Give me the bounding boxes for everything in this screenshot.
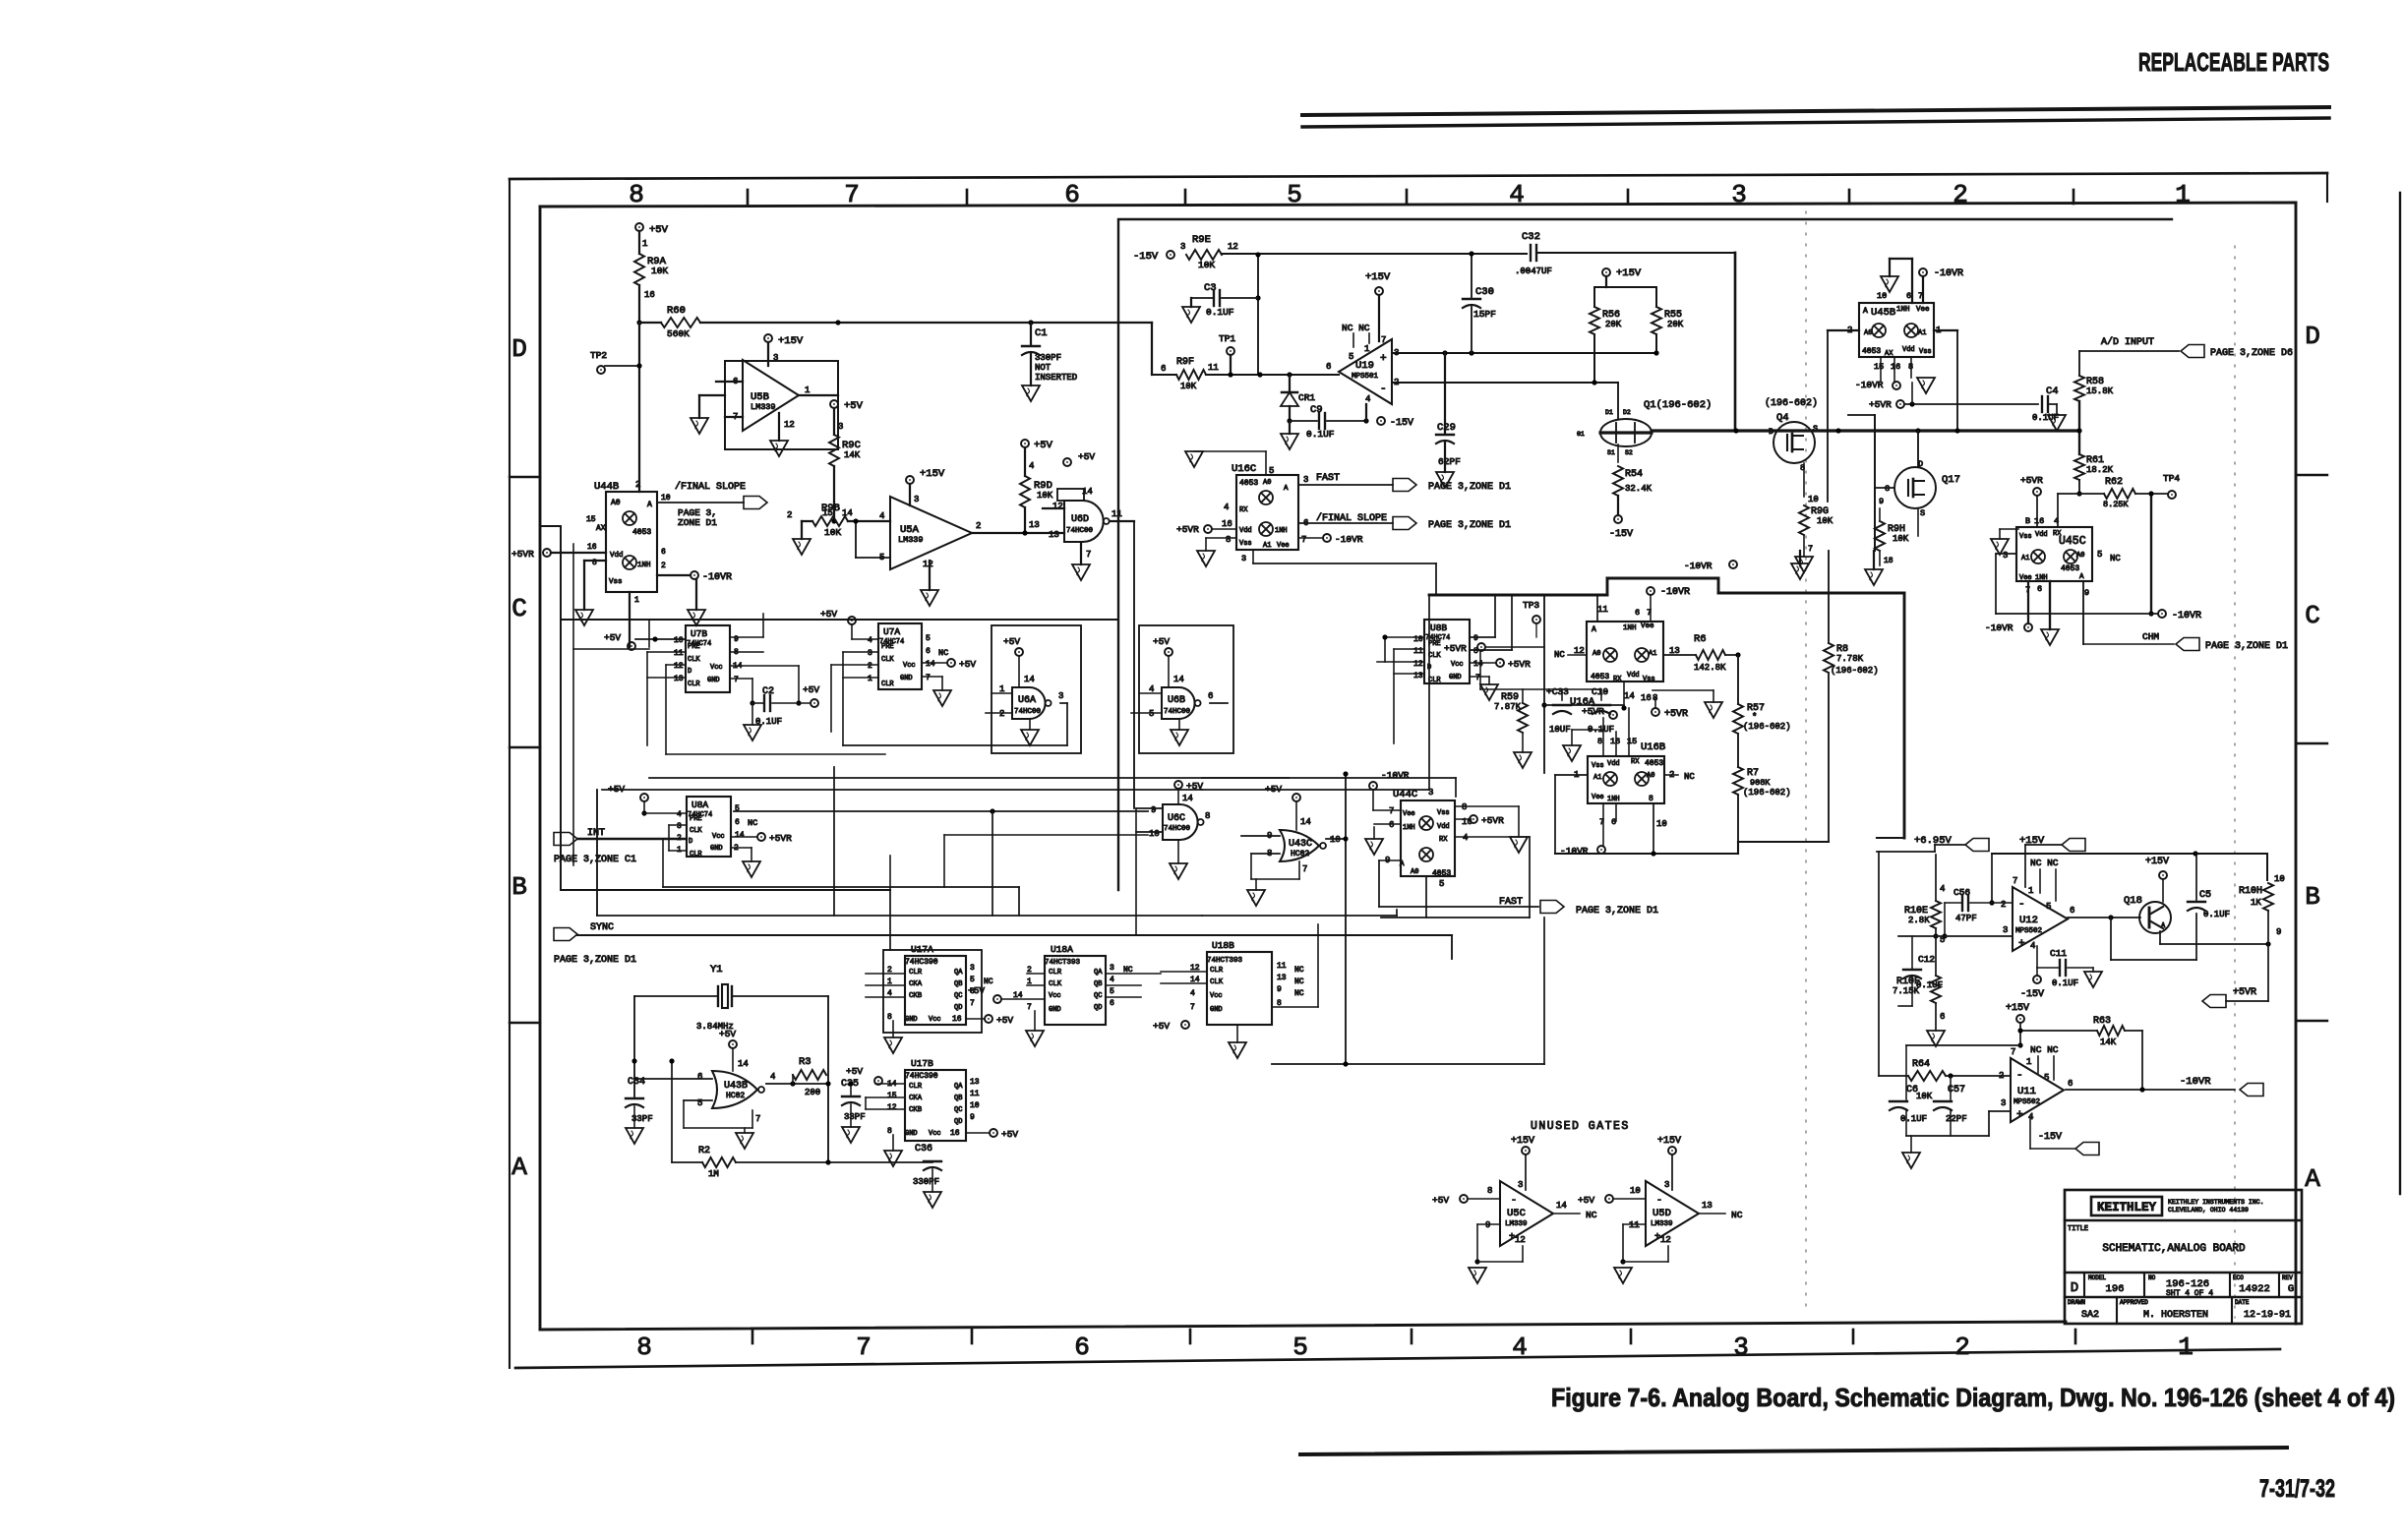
svg-text:74HC00: 74HC00 [1164,708,1191,716]
svg-text:6: 6 [2037,584,2042,594]
svg-text:R62: R62 [2105,477,2123,488]
svg-text:TITLE: TITLE [2068,1225,2088,1233]
svg-text:Vee: Vee [1641,622,1654,630]
svg-text:+5V: +5V [820,609,837,620]
svg-text:CKA: CKA [909,1095,923,1102]
svg-text:4: 4 [1029,461,1034,471]
svg-text:Vdd: Vdd [1627,672,1640,680]
svg-text:+5VR: +5VR [2020,475,2043,486]
svg-text:NC: NC [984,977,993,986]
svg-text:16: 16 [1891,362,1900,372]
svg-text:LM339: LM339 [1651,1220,1673,1228]
svg-text:12: 12 [784,420,795,430]
svg-text:20K: 20K [1667,320,1684,329]
svg-text:C1: C1 [1035,327,1048,339]
svg-text:PRE: PRE [690,815,702,823]
svg-text:CLR: CLR [881,681,894,688]
svg-text:CKB: CKB [909,1106,923,1114]
svg-text:10: 10 [1149,829,1160,839]
svg-text:/FINAL SLOPE: /FINAL SLOPE [675,481,746,493]
svg-text:TP4: TP4 [2163,473,2180,484]
svg-text:+5V: +5V [959,659,976,670]
svg-text:-10VR: -10VR [2172,611,2201,622]
svg-text:0.1UF: 0.1UF [2052,978,2078,988]
svg-text:10: 10 [2274,874,2285,884]
svg-text:Vcc: Vcc [929,1016,941,1024]
svg-text:C6: C6 [1906,1085,1918,1096]
svg-text:74HC390: 74HC390 [905,958,938,967]
svg-text:Vcc: Vcc [1451,661,1464,669]
svg-text:+5V: +5V [1001,1129,1018,1140]
svg-text:5: 5 [1110,987,1114,996]
svg-text:330PF: 330PF [1035,353,1061,363]
svg-text:+5V: +5V [719,1029,736,1039]
svg-text:Q17: Q17 [1942,474,1960,486]
svg-text:G: G [2288,1283,2294,1295]
svg-text:+5VR: +5VR [2233,987,2256,998]
svg-text:+5VR: +5VR [1508,659,1531,670]
svg-text:U19: U19 [1355,360,1374,372]
svg-text:7: 7 [1190,1003,1195,1012]
svg-text:12: 12 [1228,242,1238,252]
svg-text:DRAWN: DRAWN [2068,1299,2085,1306]
svg-text:Vdd: Vdd [1239,527,1252,535]
svg-text:3: 3 [1110,964,1114,973]
svg-text:HC02: HC02 [726,1092,745,1100]
svg-text:PRE: PRE [1428,640,1441,648]
svg-text:U7A: U7A [883,626,900,637]
svg-text:RX: RX [1239,506,1248,514]
svg-text:1K: 1K [2251,898,2261,908]
svg-text:4053: 4053 [1591,673,1609,681]
svg-text:D: D [688,668,691,676]
svg-text:MODEL: MODEL [2088,1274,2106,1281]
svg-text:PAGE 3,ZONE D1: PAGE 3,ZONE D1 [1428,520,1511,531]
svg-text:B: B [2025,516,2030,526]
svg-text:14: 14 [926,660,935,669]
svg-text:10K: 10K [1198,260,1215,270]
svg-text:+15V: +15V [1511,1136,1534,1147]
svg-text:8: 8 [887,1127,892,1136]
svg-text:4053: 4053 [632,528,651,537]
svg-text:2: 2 [999,709,1004,719]
svg-text:GND: GND [707,677,720,684]
svg-text:-10VR: -10VR [1855,380,1884,390]
svg-text:13: 13 [1029,520,1040,530]
svg-text:QC: QC [954,992,962,1000]
svg-text:16: 16 [950,1129,960,1138]
svg-text:GND: GND [900,675,913,682]
svg-text:+5V: +5V [1432,1195,1449,1206]
svg-text:Vss: Vss [1643,676,1655,683]
svg-text:U5D: U5D [1653,1208,1671,1219]
svg-text:KEITHLEY INSTRUMENTS INC.: KEITHLEY INSTRUMENTS INC. [2168,1199,2264,1206]
svg-text:Vss: Vss [1919,348,1932,356]
svg-text:A0: A0 [1593,650,1600,658]
svg-text:8: 8 [1205,811,1210,821]
svg-text:142.8K: 142.8K [1694,663,1726,673]
svg-text:R63: R63 [2093,1016,2111,1027]
svg-text:U45B: U45B [1871,307,1895,319]
svg-text:A1: A1 [1918,329,1926,337]
svg-text:22PF: 22PF [1946,1114,1967,1124]
svg-text:11: 11 [970,1090,980,1098]
svg-text:6: 6 [1389,820,1394,830]
svg-text:10: 10 [1630,1186,1641,1196]
svg-text:A1: A1 [1263,542,1271,550]
svg-text:330PF: 330PF [913,1177,939,1187]
svg-text:2: 2 [661,562,666,570]
svg-text:5: 5 [1149,709,1154,719]
svg-text:10UF: 10UF [1549,725,1571,735]
svg-text:14: 14 [1473,660,1483,669]
svg-text:3: 3 [1733,1333,1749,1362]
svg-text:3: 3 [1241,554,1246,563]
svg-text:11: 11 [674,649,684,658]
svg-text:Vcc: Vcc [903,662,916,670]
svg-text:6: 6 [2070,906,2074,916]
svg-text:RX: RX [2053,530,2062,538]
svg-text:7: 7 [1808,544,1813,554]
svg-text:CLR: CLR [1428,677,1441,684]
svg-text:Vcc: Vcc [1210,992,1223,1000]
svg-text:1M: 1M [708,1169,719,1179]
svg-text:15: 15 [1874,362,1884,372]
svg-text:+5VR: +5VR [1444,643,1467,654]
svg-text:-: - [2016,1070,2023,1082]
svg-text:CKB: CKB [909,992,923,1000]
svg-text:Vss: Vss [1239,540,1252,548]
svg-text:NC: NC [2110,554,2121,563]
svg-text:9: 9 [1277,985,1282,994]
svg-text:NC: NC [1294,989,1304,998]
svg-text:A0: A0 [1411,868,1418,876]
svg-text:CLR: CLR [909,969,923,977]
svg-text:R2: R2 [698,1146,710,1156]
svg-text:4: 4 [677,810,682,819]
svg-text:R9E: R9E [1192,234,1211,246]
svg-text:TP2: TP2 [590,350,607,361]
svg-text:Vee: Vee [1277,542,1290,550]
svg-text:U43C: U43C [1289,839,1312,850]
svg-text:11: 11 [1629,1220,1640,1230]
svg-text:-: - [1656,1196,1662,1207]
svg-text:7-31/7-32: 7-31/7-32 [2259,1475,2335,1503]
svg-text:U5C: U5C [1507,1208,1526,1219]
svg-text:MPS502: MPS502 [2015,927,2042,935]
svg-text:+5V: +5V [1153,1021,1170,1032]
svg-text:15PF: 15PF [1473,309,1496,320]
svg-text:18: 18 [1884,557,1893,565]
svg-text:7: 7 [844,180,860,209]
svg-text:14: 14 [1024,675,1035,684]
svg-text:4: 4 [1190,989,1195,998]
svg-text:7: 7 [755,1114,760,1124]
svg-text:D: D [2071,1280,2078,1296]
svg-text:R54: R54 [1625,469,1643,480]
svg-text:TP1: TP1 [1219,333,1235,344]
svg-text:QD: QD [954,1004,962,1012]
svg-text:U16C: U16C [1232,463,1256,475]
svg-text:+5V: +5V [846,1066,863,1077]
svg-text:74HC00: 74HC00 [1164,825,1191,833]
svg-text:A: A [2305,1164,2320,1194]
svg-text:PAGE 3,ZONE C1: PAGE 3,ZONE C1 [554,855,636,865]
svg-text:Q4: Q4 [1776,412,1789,424]
svg-text:1NH: 1NH [2035,574,2048,582]
svg-text:14: 14 [1182,794,1193,803]
svg-text:QC: QC [1094,992,1102,1000]
svg-text:-15V: -15V [1133,251,1159,263]
svg-text:4053: 4053 [1432,869,1451,878]
svg-text:7: 7 [1302,864,1307,874]
svg-text:D: D [689,838,692,846]
svg-text:5: 5 [926,634,931,643]
svg-text:C: C [511,594,527,623]
svg-text:SYNC: SYNC [590,922,614,933]
svg-text:U18A: U18A [1051,944,1073,955]
svg-text:D2: D2 [1623,409,1631,416]
svg-text:15.8K: 15.8K [2086,386,2114,396]
svg-text:NOT: NOT [1035,363,1052,373]
svg-text:8: 8 [629,180,644,209]
svg-text:5: 5 [2044,1073,2049,1083]
svg-text:CLR: CLR [1210,967,1224,975]
svg-text:+5V: +5V [604,632,621,643]
svg-text:A: A [2079,573,2084,581]
svg-text:8.25K: 8.25K [2103,500,2129,509]
svg-text:74HCT393: 74HCT393 [1045,959,1081,967]
svg-text:-15V: -15V [2038,1132,2062,1143]
svg-text:NC: NC [938,648,948,658]
svg-text:+5VR: +5VR [1664,709,1688,720]
svg-text:0.1UF: 0.1UF [2203,910,2230,919]
svg-text:PRE: PRE [881,643,894,651]
svg-text:-: - [2018,899,2025,911]
svg-text:A: A [1863,307,1868,316]
svg-text:1NH: 1NH [1607,796,1620,803]
svg-text:U8A: U8A [691,800,708,810]
svg-text:+15V: +15V [2006,1003,2029,1014]
svg-text:G1: G1 [1577,431,1585,438]
svg-text:14: 14 [738,1059,749,1069]
svg-text:11: 11 [1277,962,1287,971]
svg-text:+5V: +5V [1186,781,1203,792]
svg-text:11: 11 [1112,509,1122,519]
svg-text:16: 16 [1222,519,1232,529]
svg-text:1: 1 [805,385,810,395]
svg-text:8: 8 [1487,1186,1492,1196]
svg-text:3: 3 [970,964,975,973]
svg-text:0.1UF: 0.1UF [1306,429,1335,440]
svg-text:C32: C32 [1522,231,1540,243]
svg-text:U7B: U7B [691,628,707,639]
svg-text:R9B: R9B [821,503,840,514]
svg-text:4: 4 [770,1072,775,1082]
svg-text:UNUSED GATES: UNUSED GATES [1531,1120,1630,1133]
svg-text:18.2K: 18.2K [2086,465,2114,475]
svg-text:74HC00: 74HC00 [1066,527,1094,535]
svg-text:1NH: 1NH [1403,824,1415,832]
svg-text:-10VR: -10VR [1934,268,1963,279]
svg-text:RX: RX [1631,758,1640,766]
svg-text:14: 14 [1624,691,1635,701]
svg-text:6: 6 [1110,999,1114,1008]
svg-text:1: 1 [2028,886,2033,896]
svg-text:10K: 10K [1916,1092,1933,1101]
svg-text:NC: NC [1684,772,1695,782]
svg-text:Y1: Y1 [710,964,723,976]
svg-text:Q1(196-602): Q1(196-602) [1644,399,1712,411]
svg-text:1NH: 1NH [1896,306,1910,314]
svg-text:A: A [1592,625,1596,634]
svg-text:U17A: U17A [911,944,933,955]
svg-text:3: 3 [1731,180,1747,209]
svg-text:+5V: +5V [1578,1195,1594,1206]
svg-text:4: 4 [879,511,884,521]
svg-text:6: 6 [926,647,931,656]
svg-text:7.78K: 7.78K [1836,654,1864,664]
svg-text:1: 1 [868,675,872,683]
svg-text:Vdd: Vdd [1437,823,1450,831]
svg-text:3: 3 [677,822,682,831]
svg-text:12: 12 [1052,502,1063,511]
svg-text:U12: U12 [2019,915,2038,926]
svg-text:16: 16 [1641,693,1652,703]
svg-text:U8B: U8B [1430,622,1447,633]
svg-text:PAGE 3,ZONE D1: PAGE 3,ZONE D1 [554,955,636,966]
svg-text:REV: REV [2282,1274,2293,1281]
svg-text:LM339: LM339 [898,535,924,545]
svg-text:14: 14 [1300,817,1311,827]
svg-text:6: 6 [1940,1012,1945,1022]
svg-text:4: 4 [1224,503,1229,512]
svg-text:-10VR: -10VR [2180,1076,2211,1088]
svg-text:15: 15 [586,515,596,524]
svg-text:CLR: CLR [909,1083,923,1091]
svg-text:12: 12 [1515,1235,1526,1245]
svg-text:SA2: SA2 [2081,1310,2099,1321]
svg-text:Vcc: Vcc [929,1130,941,1138]
svg-text:GND: GND [905,1130,918,1138]
svg-text:C: C [2305,601,2320,630]
svg-text:SHT 4 OF 4: SHT 4 OF 4 [2166,1289,2213,1298]
svg-text:NC: NC [1554,650,1565,660]
svg-text:CLK: CLK [1049,980,1062,988]
svg-text:Vss: Vss [609,578,623,586]
svg-text:A0: A0 [611,499,621,507]
svg-text:7: 7 [1389,806,1394,816]
svg-text:+5V: +5V [1265,784,1282,795]
svg-text:R9F: R9F [1176,357,1194,368]
svg-text:INT: INT [587,828,605,839]
svg-text:-15V: -15V [1390,418,1413,429]
svg-text:+5VR: +5VR [1869,399,1892,410]
svg-text:16: 16 [644,290,655,300]
svg-text:3: 3 [1180,242,1185,252]
svg-text:+15V: +15V [920,468,945,480]
svg-text:C30: C30 [1475,286,1494,298]
svg-text:D1: D1 [1605,409,1613,416]
svg-text:9: 9 [1473,634,1478,643]
svg-text:0.1UF: 0.1UF [1916,980,1943,990]
svg-text:-10VR: -10VR [1985,622,2013,633]
svg-text:47PF: 47PF [1955,914,1977,923]
svg-text:10: 10 [1877,291,1887,301]
svg-text:U6D: U6D [1071,514,1089,525]
svg-text:7: 7 [1301,535,1306,545]
svg-text:10: 10 [1656,819,1667,829]
svg-text:16: 16 [2034,516,2044,526]
svg-text:6: 6 [1326,362,1331,372]
svg-text:11: 11 [1597,605,1608,615]
svg-text:CLR: CLR [688,681,700,688]
svg-text:8: 8 [1226,535,1231,545]
svg-text:2: 2 [787,510,792,520]
svg-text:7: 7 [926,674,931,682]
svg-text:200: 200 [805,1088,820,1097]
svg-text:C5: C5 [2199,890,2211,901]
svg-text:+: + [2018,938,2025,950]
svg-text:+5V: +5V [649,224,669,236]
svg-text:7: 7 [2013,876,2017,886]
svg-text:8: 8 [1597,737,1602,746]
svg-text:908K: 908K [1750,778,1771,788]
svg-text:PAGE 3,ZONE D1: PAGE 3,ZONE D1 [2205,641,2288,652]
svg-text:3: 3 [2003,551,2008,561]
svg-text:NC: NC [748,818,757,828]
svg-text:NC: NC [1731,1210,1743,1220]
svg-text:-10VR: -10VR [1660,587,1690,598]
svg-text:3: 3 [1058,691,1063,701]
svg-text:3: 3 [773,353,778,363]
svg-text:+15V: +15V [1657,1136,1681,1147]
svg-text:LM339: LM339 [751,402,776,412]
svg-text:CLEVELAND, OHIO 44139: CLEVELAND, OHIO 44139 [2168,1207,2249,1214]
svg-text:Vee: Vee [2019,574,2032,582]
svg-text:+C33: +C33 [1546,686,1569,697]
svg-text:U6B: U6B [1168,695,1185,706]
svg-text:4: 4 [1512,1333,1528,1362]
svg-text:4: 4 [1110,976,1114,984]
svg-text:13: 13 [674,675,684,683]
svg-text:A: A [1400,860,1405,868]
svg-text:B: B [511,872,527,902]
svg-text:2: 2 [1953,180,1968,209]
svg-text:-10VR: -10VR [1684,561,1713,571]
svg-text:S: S [1920,508,1925,518]
svg-text:Vee: Vee [1403,810,1415,818]
svg-text:DATE: DATE [2235,1299,2250,1306]
svg-text:C9: C9 [1310,404,1323,416]
svg-text:A0: A0 [1263,479,1271,487]
svg-text:GND: GND [710,845,723,853]
svg-text:5: 5 [970,976,975,984]
svg-text:G: G [1885,484,1890,494]
svg-text:CLK: CLK [690,827,702,835]
svg-text:Vdd: Vdd [2035,531,2048,539]
svg-text:13: 13 [1277,974,1287,982]
svg-text:QD: QD [1094,1004,1102,1012]
svg-text:CHM: CHM [2142,631,2159,642]
svg-text:AX: AX [596,524,606,533]
svg-text:Vee: Vee [1592,794,1604,801]
svg-text:CLR: CLR [690,851,702,859]
svg-text:12-19-91: 12-19-91 [2244,1310,2291,1321]
svg-text:-10VR: -10VR [1560,846,1589,857]
svg-text:QB: QB [954,1095,962,1102]
svg-text:+5VR: +5VR [1481,815,1504,826]
